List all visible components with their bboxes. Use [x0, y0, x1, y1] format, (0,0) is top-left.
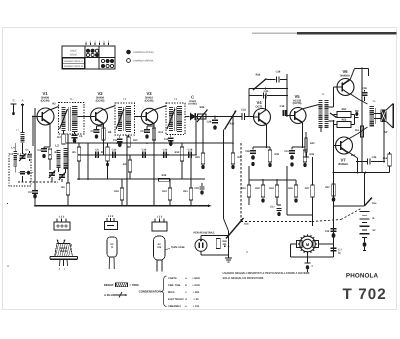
T2 bottom stub: [119, 135, 121, 138]
V5 emitter cap: [291, 147, 293, 150]
svg-text:V2: V2: [97, 91, 103, 96]
V1 base wire: [33, 116, 37, 118]
volume shaft wire: [223, 132, 225, 219]
gang lower row: [19, 172, 34, 174]
T1 bottom electrolytic C5: [74, 132, 76, 134]
T3 tuning arrow: [167, 109, 175, 129]
battery B1: [360, 211, 370, 213]
svg-text:C30: C30: [194, 187, 199, 190]
svg-text:R42: R42: [255, 187, 260, 190]
svg-text:≡ 1000: ≡ 1000: [192, 284, 200, 287]
svg-text:CER. TUB.: CER. TUB.: [168, 284, 181, 287]
svg-text:R50: R50: [342, 108, 347, 111]
svg-text:V7: V7: [340, 158, 346, 163]
svg-text:C16: C16: [163, 149, 168, 152]
svg-text:2N456A: 2N456A: [338, 163, 348, 166]
svg-text:2N410: 2N410: [60, 250, 68, 253]
svg-text:T 702: T 702: [343, 286, 387, 303]
svg-text:A FILO: A FILO: [104, 294, 113, 297]
svg-text:≡ 100: ≡ 100: [193, 305, 200, 308]
svg-text:(OA85): (OA85): [188, 102, 197, 105]
pot lower wire: [232, 117, 234, 154]
dashed divider vertical: [240, 143, 242, 221]
cap C3: [27, 154, 32, 156]
svg-text:R26: R26: [200, 106, 205, 109]
svg-text:R16: R16: [114, 190, 119, 193]
V3 emitter wire: [153, 123, 155, 124]
svg-text:C2: C2: [28, 191, 32, 194]
wire to pot: [215, 116, 233, 118]
T4 secondary top wire to V6 base: [329, 106, 334, 108]
motor circle: [315, 243, 317, 245]
supply riser x362: [361, 69, 363, 173]
R29 column: [202, 117, 204, 154]
series cap C14: [142, 152, 144, 158]
svg-text:B: B: [373, 217, 375, 220]
cap C28 electrolytic: [214, 116, 216, 118]
V4 emitter resistor R35: [269, 147, 271, 150]
svg-text:1 2 3: 1 2 3: [108, 215, 114, 218]
cap C46: [356, 161, 367, 163]
svg-text:AC: AC: [158, 243, 162, 246]
V5 emitter resistor: [304, 147, 306, 150]
V1 emitter bypass cap: [41, 148, 47, 150]
tuning gang dashed link: [18, 181, 58, 183]
svg-text:R21: R21: [183, 190, 188, 193]
svg-text:PER REGISTRAZ.: PER REGISTRAZ.: [194, 232, 216, 235]
svg-text:PHONOLA: PHONOLA: [346, 273, 379, 280]
transistor V5: [290, 108, 306, 124]
V2 collector wire: [103, 106, 115, 111]
legend brace: [161, 276, 167, 307]
bottom bus: [35, 205, 208, 207]
feedback cap C40 line: [249, 95, 263, 97]
band table dots top: [86, 49, 89, 52]
svg-text:C13: C13: [140, 130, 145, 133]
motor brush left: [297, 241, 303, 248]
jack circle: [195, 239, 207, 251]
V5 emitter wire: [301, 122, 304, 123]
svg-text:CONDENSATORI: CONDENSATORI: [139, 289, 162, 293]
long wire x287: [286, 166, 288, 215]
transistor V1: [37, 108, 54, 125]
T4 primary winding: [319, 100, 323, 128]
V6 emitter top wire: [350, 69, 355, 81]
svg-text:R2: R2: [52, 103, 56, 106]
R11 drop: [129, 155, 131, 160]
transistor V4: [254, 109, 271, 126]
svg-text:C46: C46: [372, 156, 377, 159]
svg-text:R36: R36: [256, 74, 261, 77]
R13 drop: [181, 143, 183, 147]
V7 collector wire: [348, 134, 358, 140]
resistor R26 variable: [198, 114, 207, 119]
svg-text:C4: C4: [37, 149, 41, 152]
svg-text:V5: V5: [294, 94, 300, 99]
legend filled dot: [127, 50, 131, 54]
V3 emitter resistor: [152, 128, 155, 140]
svg-text:C45: C45: [362, 87, 367, 90]
band table divider v1: [84, 46, 86, 69]
svg-text:C40: C40: [264, 90, 269, 93]
V4 emitter cap C36: [252, 147, 254, 150]
svg-text:R45: R45: [288, 187, 293, 190]
tone cap C38: [267, 79, 276, 81]
V2 emitter wire: [102, 123, 104, 124]
top rule line (light part): [252, 32, 300, 34]
T1 core: [67, 107, 69, 131]
transistor V7: [336, 137, 353, 154]
jack loop: [201, 235, 229, 237]
T1 secondary winding: [72, 106, 78, 132]
svg-text:R12: R12: [159, 131, 164, 134]
svg-text:R35: R35: [275, 153, 280, 156]
V4 collector riser: [265, 96, 267, 111]
electrolytic C49: [331, 228, 337, 230]
series cap C10: [112, 152, 114, 158]
svg-text:C49: C49: [325, 230, 330, 233]
T2 column to bus: [126, 135, 128, 206]
R16 lower drop: [121, 179, 123, 188]
R43 drop: [276, 180, 278, 185]
svg-text:R41: R41: [241, 187, 246, 190]
transistor V6: [337, 79, 354, 96]
T4 bottom resistor: [320, 128, 322, 132]
bias resistor R50: [337, 112, 351, 118]
transistor V2: [91, 108, 108, 125]
svg-text:C6: C6: [95, 149, 99, 152]
svg-text:R28: R28: [223, 240, 228, 243]
dashed mech link to S2: [312, 220, 341, 222]
svg-text:R31: R31: [238, 156, 243, 159]
svg-text:= TRIM: = TRIM: [130, 284, 140, 287]
scan speck 2: [7, 265, 9, 267]
T2 primary winding: [118, 107, 122, 131]
svg-text:R6: R6: [61, 186, 65, 189]
svg-text:V3: V3: [146, 91, 152, 96]
svg-text:RESIST.: RESIST.: [104, 284, 114, 287]
svg-text:R13: R13: [175, 151, 180, 154]
transistor case 3: [154, 236, 166, 260]
resistor R57: [332, 184, 335, 196]
svg-text:(OC45): (OC45): [96, 99, 105, 102]
bias network stubs: [334, 114, 338, 116]
T2 tuning arrow: [116, 109, 124, 129]
svg-text:C: C: [191, 95, 194, 100]
scan speck 3: [246, 251, 247, 252]
R42 drop: [262, 180, 264, 185]
speaker return wire: [383, 121, 385, 162]
band table pin ticks: [85, 43, 87, 46]
motor plug: [305, 262, 311, 264]
band table outer box: [62, 46, 115, 69]
AGC line: [66, 142, 233, 144]
trimmer cap C1: [20, 155, 26, 157]
svg-text:R10: R10: [133, 139, 138, 142]
jack resistor R28: [216, 239, 220, 249]
svg-text:GAMMA ONDE C: GAMMA ONDE C: [64, 60, 83, 63]
svg-text:R40: R40: [310, 142, 315, 145]
svg-text:C10: C10: [112, 149, 117, 152]
T4 center tap arrow: [330, 113, 337, 118]
svg-text:R57: R57: [325, 186, 330, 189]
riser resistor R54: [361, 126, 364, 137]
T1 column to bus: [67, 134, 69, 143]
osc trimmer 2: [59, 174, 65, 176]
T4 secondary winding: [324, 100, 328, 128]
svg-text:R19: R19: [162, 190, 167, 193]
diode out wire: [195, 116, 215, 118]
rail resistor R15: [159, 178, 170, 181]
package top view 2: [105, 222, 118, 230]
V1 collector wire: [50, 107, 59, 111]
speaker wires: [374, 113, 381, 115]
C7 lower drop: [87, 143, 89, 179]
svg-text:C5: C5: [79, 135, 83, 138]
svg-text:C9: C9: [90, 130, 94, 133]
switch S1: [224, 219, 229, 232]
svg-text:R15: R15: [162, 174, 167, 177]
wire L1 down: [22, 143, 24, 154]
band table divider v2: [98, 46, 100, 69]
T1 output wire: [77, 116, 90, 118]
mid rail: [77, 178, 205, 180]
svg-text:GAMMA ONDE M: GAMMA ONDE M: [64, 65, 83, 68]
svg-text:V4: V4: [256, 100, 262, 105]
svg-text:L2: L2: [55, 144, 59, 148]
svg-text:MEDIE: MEDIE: [70, 54, 78, 57]
IF transformer T3 box: [166, 103, 185, 135]
T3 core: [173, 107, 175, 131]
svg-text:THIN CASE: THIN CASE: [171, 246, 185, 249]
output return line: [334, 172, 390, 174]
T5 core lines: [374, 108, 376, 124]
IF transformer T2 box: [115, 103, 135, 135]
feedback top wire: [249, 88, 287, 90]
svg-text:C15: C15: [164, 138, 169, 141]
speaker AP: [381, 110, 386, 122]
svg-text:R30: R30: [230, 123, 235, 126]
motor feed wire: [312, 215, 314, 226]
V4 right riser: [286, 74, 288, 117]
battery switch riser: [364, 173, 366, 206]
svg-text:R54: R54: [355, 129, 360, 132]
band table row box 2: [63, 63, 85, 68]
svg-text:USANDO SEGNALI RIPORTATI A: USANDO SEGNALI RIPORTATI A TESTO INSTALL…: [223, 272, 310, 275]
rail y180: [249, 179, 296, 181]
svg-text:C39: C39: [280, 105, 285, 108]
jack ground: [228, 255, 230, 258]
svg-text:S1b: S1b: [244, 223, 249, 226]
osc trimmer 1: [49, 172, 55, 174]
capacitor C2 on antenna wire: [32, 190, 38, 192]
V4 emitter wire: [265, 124, 267, 125]
svg-text:≡ 25: ≡ 25: [193, 298, 199, 301]
antenna A wire: [22, 104, 24, 133]
jack contact dots: [224, 246, 226, 248]
bias resistor NTC: [337, 122, 351, 128]
V2 emitter cap C9: [94, 129, 100, 131]
feedback left wire: [248, 89, 250, 117]
series cap C18: [188, 152, 190, 158]
svg-text:ELETTROLIT.: ELETTROLIT.: [168, 298, 184, 301]
svg-text:C18: C18: [188, 149, 193, 152]
coupling cap C33: [233, 116, 242, 118]
svg-text:R56: R56: [383, 157, 388, 160]
R5 drop: [78, 143, 80, 147]
R21 lower drop: [190, 155, 192, 188]
V2 emitter resistor R8: [102, 128, 105, 140]
detector diode: [191, 113, 196, 119]
T3 primary winding: [169, 107, 173, 131]
V1 emitter wire: [49, 123, 51, 124]
svg-text:C28: C28: [207, 121, 212, 124]
V1 emitter resistor R3: [48, 149, 51, 159]
T4 secondary bottom wire to V7 base: [329, 120, 334, 122]
R41 drop: [248, 166, 250, 185]
series cap C16: [163, 152, 165, 158]
T3 secondary winding: [177, 106, 182, 132]
svg-text:R8: R8: [108, 131, 112, 134]
svg-text:C11: C11: [113, 139, 118, 142]
svg-text:V6: V6: [342, 69, 348, 74]
package top view 1: [54, 222, 70, 230]
T1 tuning arrow: [60, 109, 68, 129]
band table divider h: [62, 57, 115, 59]
T3 bottom stub: [170, 134, 172, 137]
svg-text:R9: R9: [101, 151, 105, 154]
V5 collector wire: [302, 105, 319, 110]
svg-text:R3: R3: [55, 151, 59, 154]
T2 core: [122, 107, 124, 131]
wire C2 to bus: [34, 199, 36, 206]
svg-text:2N456A: 2N456A: [340, 75, 350, 78]
svg-text:(OC44): (OC44): [41, 99, 50, 102]
svg-text:ONDE: ONDE: [70, 50, 77, 53]
band table row box 1: [63, 58, 85, 63]
T1 bottom stub resistor R4: [63, 131, 65, 134]
svg-text:R52: R52: [342, 118, 347, 121]
cap C39: [287, 115, 290, 117]
tone pot R36: [253, 79, 267, 91]
cap C30: [201, 183, 203, 186]
svg-text:CARTA: CARTA: [168, 277, 177, 280]
band table dots bottom: [101, 59, 104, 62]
transistor case 1: [55, 244, 73, 257]
svg-text:CERAMICI: CERAMICI: [168, 305, 181, 308]
svg-text:S: S: [12, 99, 14, 103]
T2 output wire: [135, 116, 142, 118]
scan speck 1: [7, 203, 8, 204]
series cap C6: [95, 152, 97, 158]
svg-text:R53: R53: [351, 154, 356, 157]
R45 drop: [295, 180, 297, 185]
V7 emitter wire: [348, 152, 357, 158]
main filter column: [333, 128, 335, 257]
osc coil winding 2: [64, 148, 68, 169]
cap row line: [79, 154, 196, 156]
osc wires: [58, 168, 60, 172]
svg-text:R43: R43: [269, 187, 274, 190]
motor brush right: [313, 241, 319, 248]
V3 collector wire: [154, 106, 167, 111]
svg-text:9V: 9V: [373, 229, 376, 232]
R31 under pot: [231, 153, 234, 164]
svg-text:C33: C33: [241, 109, 246, 112]
svg-text:R29: R29: [195, 156, 200, 159]
dashed divider horizontal: [241, 221, 312, 223]
top rule line (dark part): [297, 32, 397, 34]
legend open dot: [127, 59, 131, 63]
motor cap CT: [331, 247, 337, 249]
R6 lower drop: [67, 143, 69, 183]
svg-text:OC: OC: [110, 243, 114, 246]
svg-text:R47: R47: [305, 187, 310, 190]
svg-text:≡ 500: ≡ 500: [193, 291, 200, 294]
cap C17: [277, 204, 281, 206]
svg-text:A: A: [21, 99, 23, 103]
svg-text:(OC45): (OC45): [145, 99, 154, 102]
svg-text:1 2 3: 1 2 3: [157, 216, 163, 219]
transistor V3: [141, 108, 157, 124]
svg-text:C17: C17: [270, 206, 275, 209]
T2 secondary winding: [126, 106, 131, 132]
transistor case 2: [107, 237, 117, 257]
svg-text:R5: R5: [72, 151, 76, 154]
resistor R56: [389, 152, 391, 154]
svg-text:LAMPADA ACCESA: LAMPADA ACCESA: [133, 51, 154, 54]
svg-text:(OC75): (OC75): [293, 102, 302, 105]
wire T3 secondary down: [195, 117, 197, 155]
svg-text:C36: C36: [245, 150, 250, 153]
junction dots: [49, 154, 51, 156]
T2 bottom resistor: [128, 135, 130, 137]
V6 collector wire: [350, 94, 359, 100]
switch S2: [365, 198, 373, 206]
coil L1: [20, 132, 24, 143]
IF transformer T1 box: [59, 103, 85, 135]
svg-text:L4: L4: [11, 147, 15, 150]
svg-text:C38: C38: [276, 71, 281, 74]
T1 primary winding: [62, 107, 66, 131]
svg-text:C41: C41: [284, 150, 289, 153]
package top view 3: [152, 222, 167, 231]
svg-text:C14: C14: [142, 149, 147, 152]
svg-text:LAMPADA SPENTA: LAMPADA SPENTA: [133, 60, 154, 63]
motor loop wire: [291, 243, 297, 245]
svg-text:R39: R39: [310, 153, 315, 156]
motor bottom wire: [307, 254, 309, 263]
R47 drop: [312, 157, 314, 185]
svg-text:S1a: S1a: [372, 202, 377, 205]
antenna S: [11, 103, 17, 105]
ferrite antenna box: [9, 154, 31, 186]
svg-text:MICA: MICA: [168, 291, 175, 294]
svg-text:1 2 3: 1 2 3: [59, 216, 65, 219]
T3 output wire: [185, 116, 190, 118]
long wire from antenna: [34, 108, 36, 190]
V3 emitter cap: [144, 129, 150, 131]
svg-text:R4: R4: [57, 136, 61, 139]
svg-text:V1: V1: [42, 91, 48, 96]
T5 primary winding: [370, 106, 375, 127]
volume pot R30: [225, 111, 237, 130]
osc coil winding 1: [57, 150, 61, 168]
R19 lower drop: [169, 179, 171, 188]
R9 drop: [107, 143, 109, 147]
svg-text:SOLO SEGNALI DI RICEVITORE: SOLO SEGNALI DI RICEVITORE: [223, 277, 264, 280]
svg-text:≡ 5000: ≡ 5000: [192, 277, 200, 280]
